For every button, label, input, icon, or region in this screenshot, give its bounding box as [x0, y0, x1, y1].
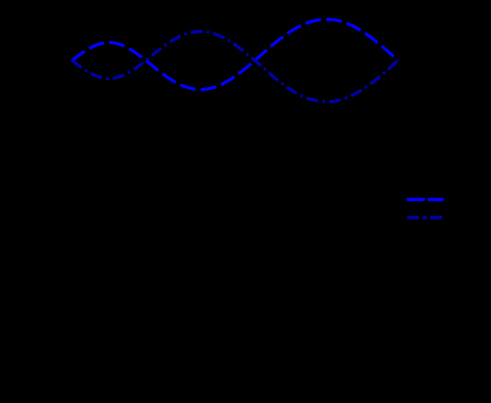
legend dash-dot sample [407, 216, 442, 219]
curve: dashed blue mode (upper lobe in lens 1 and 3) [72, 19, 398, 89]
curve: dash-dot blue mode (mirror curve) [72, 32, 398, 102]
legend dashed sample [407, 198, 444, 201]
